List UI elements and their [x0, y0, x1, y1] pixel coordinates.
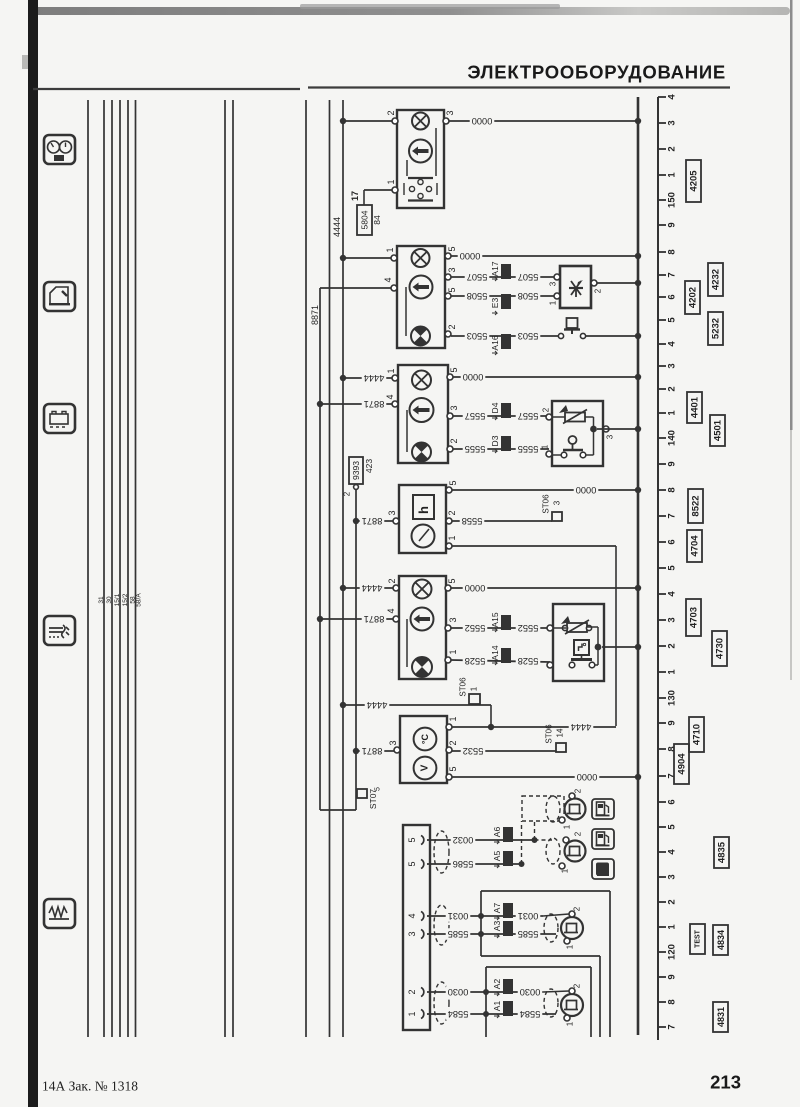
svg-text:5557: 5557 — [465, 411, 486, 421]
svg-text:4704: 4704 — [690, 535, 701, 557]
svg-text:2: 2 — [574, 788, 583, 793]
svg-text:213: 213 — [710, 1072, 741, 1093]
svg-text:2: 2 — [667, 643, 678, 648]
svg-text:5507: 5507 — [518, 272, 539, 282]
svg-text:1: 1 — [386, 179, 396, 184]
svg-text:14: 14 — [556, 728, 565, 737]
svg-text:A7: A7 — [492, 903, 502, 914]
svg-text:8871: 8871 — [364, 614, 385, 624]
svg-text:5: 5 — [448, 766, 458, 771]
svg-text:15/2: 15/2 — [122, 593, 129, 606]
svg-text:8: 8 — [667, 999, 678, 1004]
svg-text:2: 2 — [667, 899, 678, 904]
svg-text:4730: 4730 — [715, 638, 726, 659]
svg-text:A16: A16 — [490, 335, 500, 350]
svg-text:5552: 5552 — [465, 623, 486, 633]
svg-text:4401: 4401 — [690, 396, 701, 418]
svg-text:2: 2 — [386, 110, 396, 115]
svg-text:5508: 5508 — [518, 291, 539, 301]
svg-text:4831: 4831 — [716, 1007, 726, 1027]
svg-text:5532: 5532 — [463, 746, 484, 756]
svg-text:3: 3 — [407, 931, 417, 936]
svg-text:D3: D3 — [490, 435, 500, 446]
svg-text:14А Зак. № 1318: 14А Зак. № 1318 — [42, 1079, 138, 1094]
svg-text:2: 2 — [448, 740, 458, 745]
svg-text:1: 1 — [561, 868, 570, 873]
svg-text:3: 3 — [553, 500, 562, 505]
svg-text:A17: A17 — [490, 261, 500, 276]
svg-text:4710: 4710 — [692, 724, 703, 745]
svg-text:ST06: ST06 — [542, 494, 551, 514]
svg-text:4: 4 — [667, 591, 678, 597]
svg-text:84: 84 — [372, 215, 382, 225]
svg-text:5584: 5584 — [520, 1009, 541, 1019]
svg-text:7: 7 — [667, 1024, 678, 1029]
svg-text:7: 7 — [667, 272, 678, 277]
svg-text:6: 6 — [667, 799, 678, 804]
svg-text:5: 5 — [447, 287, 457, 292]
svg-text:0031: 0031 — [518, 911, 539, 921]
svg-text:2: 2 — [447, 324, 457, 329]
svg-text:4444: 4444 — [364, 373, 385, 383]
svg-text:31: 31 — [98, 596, 105, 604]
svg-text:4202: 4202 — [688, 287, 699, 308]
svg-text:1: 1 — [447, 535, 457, 540]
svg-text:ST06: ST06 — [545, 724, 554, 744]
svg-text:0031: 0031 — [448, 911, 469, 921]
svg-text:3: 3 — [448, 617, 458, 622]
svg-text:5528: 5528 — [518, 656, 539, 666]
svg-text:5: 5 — [447, 578, 457, 583]
svg-text:3: 3 — [549, 281, 558, 286]
svg-text:2: 2 — [449, 438, 459, 443]
svg-text:1: 1 — [448, 649, 458, 654]
svg-text:1: 1 — [566, 944, 575, 949]
svg-text:5: 5 — [667, 317, 678, 323]
svg-text:8871: 8871 — [364, 399, 385, 409]
svg-text:8: 8 — [667, 487, 678, 492]
svg-text:7: 7 — [667, 513, 678, 518]
svg-text:4834: 4834 — [716, 930, 726, 950]
svg-text:1: 1 — [549, 300, 558, 305]
svg-text:0000: 0000 — [465, 583, 486, 593]
svg-text:0030: 0030 — [520, 987, 541, 997]
svg-text:5585: 5585 — [448, 929, 469, 939]
svg-text:3: 3 — [449, 405, 459, 410]
svg-text:°C: °C — [420, 733, 430, 744]
svg-text:D4: D4 — [490, 402, 500, 413]
svg-text:3: 3 — [606, 434, 615, 439]
svg-text:4904: 4904 — [677, 753, 688, 775]
svg-text:4: 4 — [407, 913, 417, 918]
svg-text:5: 5 — [407, 837, 417, 842]
svg-text:3: 3 — [667, 617, 678, 622]
svg-text:5: 5 — [667, 824, 678, 830]
svg-text:A5: A5 — [492, 851, 502, 862]
svg-text:4444: 4444 — [332, 217, 342, 237]
svg-text:1: 1 — [407, 1011, 417, 1016]
svg-text:A3: A3 — [492, 921, 502, 932]
svg-text:ЭЛЕКТРООБОРУДОВАНИЕ: ЭЛЕКТРООБОРУДОВАНИЕ — [467, 62, 726, 83]
svg-text:5552: 5552 — [518, 623, 539, 633]
svg-text:5555: 5555 — [465, 444, 486, 454]
svg-text:2: 2 — [407, 989, 417, 994]
svg-text:2: 2 — [343, 491, 352, 496]
svg-text:8522: 8522 — [691, 495, 702, 516]
svg-text:2: 2 — [573, 983, 582, 988]
svg-text:h: h — [416, 506, 431, 514]
svg-text:6: 6 — [667, 294, 678, 299]
svg-text:2: 2 — [387, 578, 397, 583]
svg-text:4: 4 — [385, 394, 395, 399]
svg-text:A1: A1 — [492, 1001, 502, 1012]
svg-text:3: 3 — [447, 267, 457, 272]
svg-text:2: 2 — [574, 831, 583, 836]
svg-text:4444: 4444 — [571, 722, 592, 732]
svg-text:0000: 0000 — [463, 372, 484, 382]
svg-text:5558: 5558 — [462, 516, 483, 526]
svg-text:1: 1 — [385, 247, 395, 252]
svg-text:8: 8 — [667, 746, 678, 751]
svg-text:0000: 0000 — [460, 251, 481, 261]
svg-text:1: 1 — [566, 1021, 575, 1026]
svg-text:1: 1 — [667, 410, 678, 416]
svg-text:6: 6 — [667, 539, 678, 544]
svg-text:1: 1 — [386, 368, 396, 373]
svg-text:15/1: 15/1 — [114, 593, 121, 606]
svg-text:2: 2 — [594, 288, 603, 293]
svg-text:130: 130 — [667, 690, 678, 706]
svg-text:5: 5 — [667, 565, 678, 571]
svg-text:4205: 4205 — [689, 170, 700, 192]
svg-text:3: 3 — [388, 740, 398, 745]
svg-text:4: 4 — [386, 608, 396, 613]
svg-text:4: 4 — [383, 277, 393, 282]
svg-text:A14: A14 — [490, 645, 500, 660]
svg-text:1: 1 — [563, 824, 572, 829]
svg-text:E3: E3 — [490, 298, 500, 309]
svg-text:5503: 5503 — [467, 331, 488, 341]
svg-text:1: 1 — [667, 924, 678, 930]
svg-text:3: 3 — [667, 120, 678, 125]
svg-text:4703: 4703 — [689, 607, 700, 628]
svg-text:5508: 5508 — [467, 291, 488, 301]
svg-text:5: 5 — [449, 367, 459, 372]
svg-text:3: 3 — [667, 363, 678, 368]
svg-text:9: 9 — [667, 222, 678, 227]
svg-text:0032: 0032 — [453, 835, 474, 845]
svg-text:2: 2 — [447, 510, 457, 515]
svg-text:5507: 5507 — [467, 272, 488, 282]
svg-text:5: 5 — [447, 246, 457, 251]
svg-text:8871: 8871 — [310, 305, 320, 325]
svg-text:4501: 4501 — [713, 419, 724, 441]
svg-text:3: 3 — [667, 874, 678, 879]
svg-text:1: 1 — [541, 444, 550, 449]
svg-text:5557: 5557 — [518, 411, 539, 421]
svg-text:ST06: ST06 — [459, 677, 468, 697]
svg-text:1: 1 — [470, 686, 479, 691]
svg-text:2: 2 — [667, 386, 678, 391]
svg-text:5: 5 — [448, 480, 458, 485]
svg-text:423: 423 — [364, 459, 374, 473]
svg-text:0000: 0000 — [577, 772, 598, 782]
svg-text:A6: A6 — [492, 827, 502, 838]
svg-text:0000: 0000 — [472, 116, 493, 126]
svg-text:3: 3 — [445, 110, 455, 115]
svg-text:1: 1 — [448, 716, 458, 721]
svg-text:5: 5 — [407, 861, 417, 866]
svg-text:2: 2 — [667, 146, 678, 151]
svg-text:8871: 8871 — [362, 516, 383, 526]
svg-text:9393: 9393 — [351, 461, 361, 480]
svg-text:5: 5 — [375, 787, 382, 791]
svg-text:120: 120 — [667, 944, 678, 960]
svg-text:9: 9 — [667, 974, 678, 979]
svg-text:5503: 5503 — [518, 331, 539, 341]
svg-text:8: 8 — [667, 249, 678, 254]
svg-text:5584: 5584 — [448, 1009, 469, 1019]
svg-text:9: 9 — [667, 461, 678, 466]
svg-text:150: 150 — [667, 192, 678, 208]
svg-text:58/A: 58/A — [136, 593, 143, 607]
svg-text:1: 1 — [667, 172, 678, 178]
svg-text:5804: 5804 — [360, 210, 370, 229]
svg-text:4: 4 — [667, 94, 678, 100]
svg-text:140: 140 — [667, 430, 678, 446]
svg-text:2: 2 — [573, 906, 582, 911]
svg-text:5585: 5585 — [518, 929, 539, 939]
svg-text:4835: 4835 — [717, 841, 728, 863]
svg-text:0000: 0000 — [576, 485, 597, 495]
svg-text:2: 2 — [542, 407, 551, 412]
svg-text:5555: 5555 — [518, 444, 539, 454]
svg-text:4444: 4444 — [362, 583, 383, 593]
svg-text:4: 4 — [667, 341, 678, 347]
svg-text:30: 30 — [106, 596, 113, 604]
svg-text:5528: 5528 — [465, 656, 486, 666]
svg-text:4: 4 — [667, 849, 678, 855]
svg-text:5586: 5586 — [453, 859, 474, 869]
svg-text:8871: 8871 — [362, 746, 383, 756]
svg-text:1: 1 — [667, 669, 678, 675]
svg-text:A2: A2 — [492, 979, 502, 990]
svg-text:A15: A15 — [490, 612, 500, 627]
svg-text:TEST: TEST — [695, 929, 702, 948]
svg-text:V: V — [420, 764, 431, 771]
svg-text:5232: 5232 — [711, 318, 722, 339]
svg-text:9: 9 — [667, 720, 678, 725]
svg-text:3: 3 — [387, 510, 397, 515]
svg-text:4444: 4444 — [367, 700, 388, 710]
svg-text:4232: 4232 — [711, 269, 722, 290]
svg-text:17: 17 — [350, 191, 360, 201]
svg-text:0030: 0030 — [448, 987, 469, 997]
